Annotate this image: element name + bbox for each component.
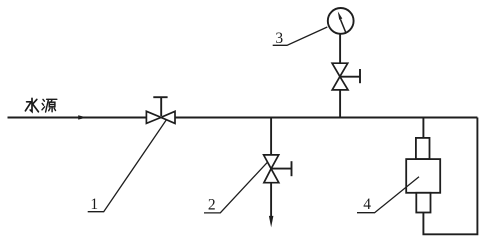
wire: main supply line from left edge to right loop xyxy=(8,117,478,119)
flow arrow on supply line xyxy=(78,115,87,119)
valve 1 stem and handle bar xyxy=(160,97,162,116)
wire: drain branch down through valve 2 xyxy=(270,118,272,217)
wire: right return loop (down pipe below device 4, bottom run, right riser) xyxy=(423,118,477,235)
leader line for label 1 xyxy=(88,120,167,212)
pressure gauge needle xyxy=(340,19,346,33)
leader line for label 3 xyxy=(273,27,328,45)
char 水 xyxy=(25,98,38,111)
svg-text:4: 4 xyxy=(363,196,371,213)
char 源 xyxy=(42,99,57,112)
leader line for label 4 xyxy=(357,177,419,213)
pressure gauge 3 dial xyxy=(328,8,354,34)
drain arrow below valve 2 xyxy=(269,216,274,228)
valve 3 handle xyxy=(340,76,360,78)
device 4 body xyxy=(406,159,440,193)
svg-text:2: 2 xyxy=(208,196,216,213)
valve 2 handle xyxy=(271,168,291,170)
valve 2 body (drain valve) xyxy=(264,155,279,183)
wire: pipe from main line down to device 4 xyxy=(422,118,424,139)
svg-text:1: 1 xyxy=(90,196,98,213)
leader line for label 2 xyxy=(204,162,268,213)
valve 1 body (bowtie on supply line) xyxy=(146,111,175,123)
wire: branch riser to gauge (through valve 3 position) xyxy=(339,35,341,118)
text 水源 (water source), hand drawn strokes xyxy=(25,98,56,112)
device 4 upper neck xyxy=(416,138,430,159)
svg-text:3: 3 xyxy=(275,30,283,47)
device 4 lower neck xyxy=(416,193,430,213)
valve 3 body (gauge isolation valve) xyxy=(332,63,348,90)
